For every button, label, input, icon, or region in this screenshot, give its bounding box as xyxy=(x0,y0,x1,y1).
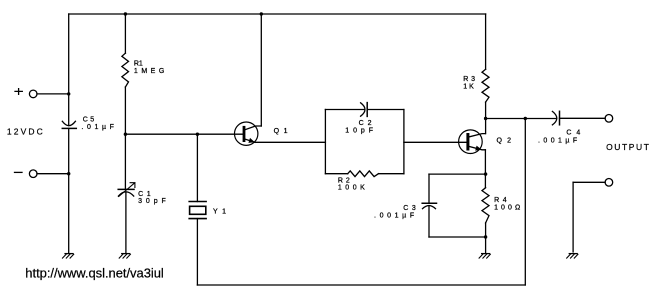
svg-text:C3: C3 xyxy=(403,205,416,212)
svg-text:100Ω: 100Ω xyxy=(494,205,520,212)
svg-text:10pF: 10pF xyxy=(345,127,373,134)
svg-text:Q1: Q1 xyxy=(274,128,288,135)
svg-text:Q2: Q2 xyxy=(497,137,512,144)
svg-text:R1: R1 xyxy=(134,61,143,68)
svg-text:R4: R4 xyxy=(494,197,507,204)
svg-text:.001µF: .001µF xyxy=(538,137,577,144)
svg-text:100K: 100K xyxy=(338,185,365,192)
svg-text:OUTPUT: OUTPUT xyxy=(606,142,649,152)
svg-text:C5: C5 xyxy=(83,116,95,123)
svg-text:C1: C1 xyxy=(138,191,151,198)
svg-text:.001µF: .001µF xyxy=(374,212,414,219)
svg-text:Y1: Y1 xyxy=(213,209,226,216)
svg-text:1K: 1K xyxy=(463,83,474,90)
svg-text:http://www.qsl.net/va3iul: http://www.qsl.net/va3iul xyxy=(25,265,164,280)
svg-text:.01µF: .01µF xyxy=(81,124,114,131)
svg-text:C4: C4 xyxy=(566,130,580,137)
svg-text:12VDC: 12VDC xyxy=(7,126,43,136)
svg-text:R2: R2 xyxy=(338,178,350,185)
svg-text:30pF: 30pF xyxy=(138,198,166,205)
svg-text:1MEG: 1MEG xyxy=(134,68,164,75)
svg-text:C2: C2 xyxy=(359,120,372,127)
svg-text:R3: R3 xyxy=(463,76,475,83)
